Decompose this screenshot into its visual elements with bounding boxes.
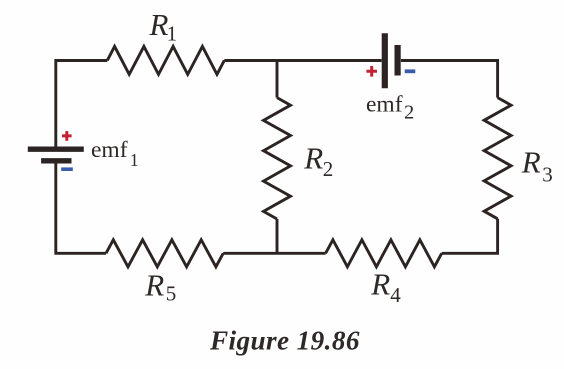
- wire: right wire below R3 and bottom-right segment to R4: [442, 219, 498, 254]
- svg-text:3: 3: [542, 162, 553, 186]
- wire: top-left segment and left wire down to emf1 top plate: [56, 61, 108, 147]
- svg-text:R: R: [370, 266, 390, 301]
- svg-text:1: 1: [167, 22, 178, 46]
- svg-text:1: 1: [130, 150, 139, 170]
- svg-text:2: 2: [404, 101, 414, 123]
- battery emf1 positive long plate: [28, 146, 84, 151]
- polarity minus of emf2: [405, 69, 416, 73]
- resistor R2: [264, 98, 291, 219]
- svg-text:emf: emf: [91, 137, 128, 163]
- wire: middle branch from top node down to R2: [276, 61, 279, 98]
- wire: bottom middle segment through node (R5 to R4): [223, 252, 325, 255]
- svg-text:4: 4: [390, 283, 401, 307]
- battery emf2 negative short plate: [395, 45, 401, 76]
- polarity plus of emf2: [366, 66, 377, 77]
- wire: bottom-left segment and left wire up to emf1 bottom plate: [56, 163, 106, 253]
- svg-text:R: R: [144, 268, 164, 303]
- polarity minus of emf1: [61, 167, 73, 171]
- svg-text:R: R: [149, 7, 169, 42]
- battery emf1 negative short plate: [41, 158, 71, 163]
- resistor R4: [326, 240, 442, 267]
- wire: middle branch from R2 down to bottom node: [276, 219, 279, 253]
- polarity plus of emf1: [62, 131, 72, 141]
- svg-text:5: 5: [166, 282, 177, 306]
- resistor R3: [484, 98, 511, 219]
- svg-text:2: 2: [323, 157, 334, 181]
- svg-text:R: R: [303, 141, 323, 176]
- battery emf2 positive long plate: [382, 33, 388, 88]
- svg-text:emf: emf: [366, 92, 403, 118]
- resistor R5: [106, 240, 223, 267]
- wire: top middle segment (R1 to emf2 left plate): [224, 59, 381, 62]
- svg-text:Figure 19.86: Figure 19.86: [209, 326, 360, 356]
- wire: top-right segment and right wire down to R3: [401, 61, 498, 98]
- resistor R1: [107, 46, 224, 74]
- svg-text:R: R: [521, 145, 541, 180]
